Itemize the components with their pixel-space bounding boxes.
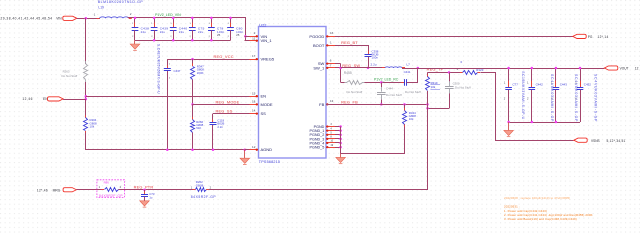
wire MRG to R86 box <box>76 189 104 191</box>
capacitor C452 <box>580 68 582 87</box>
svg-text:C442: C442 <box>536 83 544 87</box>
svg-text:Do Not Stuff: Do Not Stuff <box>386 93 402 97</box>
resistor R266 <box>192 104 194 119</box>
svg-text:22u: 22u <box>179 30 185 34</box>
svg-text:C444: C444 <box>386 87 393 91</box>
svg-text:TPS568215: TPS568215 <box>259 160 280 164</box>
svg-text:22u: 22u <box>160 30 166 34</box>
junction dot C443 bottom <box>555 121 558 124</box>
capacitor C73 <box>144 190 146 195</box>
wire cap bank bottom bus <box>135 40 231 42</box>
wire EN to IC pin 15 <box>86 96 245 98</box>
wire EN to R264 <box>85 99 87 118</box>
svg-text:2.2u: 2.2u <box>371 63 377 67</box>
junction dot C300 top <box>448 71 451 74</box>
ground at AGND <box>244 150 246 159</box>
wire PGND bus <box>340 127 342 154</box>
wire R262 to FB riser <box>209 105 428 190</box>
pin 10 PGND_4 <box>326 142 341 144</box>
junction dot C440 bottom <box>172 39 175 42</box>
svg-text:29,38,40,41,42,44,45,48,54: 29,38,40,41,42,44,45,48,54 <box>1 17 53 21</box>
svg-text:200K: 200K <box>197 71 204 75</box>
wire SW to L7 <box>341 67 385 69</box>
capacitor C80 <box>230 18 232 27</box>
svg-text:SC4VUK03VAMI-S-GP: SC4VUK03VAMI-S-GP <box>594 74 598 122</box>
wire R264 to AGND rail <box>85 131 87 136</box>
capacitor C443 <box>555 68 557 87</box>
svg-text:12: 12 <box>252 145 256 149</box>
junction dot C444 bottom <box>380 103 383 106</box>
resistor R344 <box>404 104 406 110</box>
junction dot PGND_2 <box>339 134 342 137</box>
svg-text:12*,46: 12*,46 <box>37 188 48 192</box>
svg-text:22u: 22u <box>141 30 147 34</box>
wire VOUT rail <box>402 68 604 70</box>
svg-text:REG_MODE: REG_MODE <box>216 99 240 104</box>
svg-text:PG: PG <box>588 35 593 39</box>
junction dot C338/SW <box>367 67 370 70</box>
svg-text:15: 15 <box>252 91 256 95</box>
junction dot AGND <box>244 148 247 151</box>
junction dot PGND_1 <box>339 129 342 132</box>
junction dot C75 top <box>191 17 194 20</box>
wire output cap bus <box>509 122 580 124</box>
svg-text:REG_FB: REG_FB <box>341 99 358 104</box>
svg-text:EN: EN <box>261 94 267 99</box>
svg-text:VOUT: VOUT <box>620 67 629 71</box>
svg-text:C443: C443 <box>560 83 568 87</box>
junction dot R266 bottom <box>191 148 194 151</box>
resistor R263 (Do Not Stuff) <box>85 61 87 64</box>
ground at VIN cap bank <box>134 40 136 44</box>
resistor R455 (Do Not Stuff, grayed) <box>341 82 345 84</box>
svg-text:R86: R86 <box>104 181 110 185</box>
svg-text:VIN_1: VIN_1 <box>261 38 273 43</box>
svg-text:100n: 100n <box>372 56 379 60</box>
junction dot C440 top <box>172 17 175 20</box>
svg-text:REG_SS: REG_SS <box>216 109 233 114</box>
svg-text:GB08: GB08 <box>196 183 204 187</box>
pin 2 VIN <box>245 36 259 38</box>
svg-text:18: 18 <box>252 99 256 103</box>
svg-text:22u: 22u <box>198 30 204 34</box>
svg-text:12*,14: 12*,14 <box>598 35 609 39</box>
connector flag MRG <box>63 188 76 192</box>
svg-text:R455: R455 <box>344 71 352 75</box>
junction dot SW pin7 <box>339 67 342 70</box>
capacitor C119 <box>212 114 214 123</box>
svg-text:MODE: MODE <box>261 102 273 107</box>
capacitor C77 <box>508 68 510 87</box>
pin 13 FB <box>326 104 341 106</box>
svg-text:REG_BT: REG_BT <box>341 40 358 45</box>
junction dot R347 top <box>191 58 194 61</box>
wire PGOOD to PG flag <box>341 36 573 38</box>
junction dot PGND_4 <box>339 142 342 145</box>
resistor R262 <box>193 189 195 191</box>
svg-text:PGND_5: PGND_5 <box>310 146 325 150</box>
junction dot PGND_5 <box>339 146 342 149</box>
svg-text:20220608 : replace 100uF(1210): 20220608 : replace 100uF(1210) to 47uF(0… <box>504 196 570 200</box>
svg-text:SS: SS <box>261 111 267 116</box>
ground at C73 <box>140 201 150 207</box>
capacitor C438 <box>134 18 136 27</box>
svg-text:P1V2_LED_VIN: P1V2_LED_VIN <box>155 13 181 17</box>
wire VIN to R263 <box>85 18 87 64</box>
svg-text:84X5R2F-GP: 84X5R2F-GP <box>191 195 217 199</box>
svg-text:10k: 10k <box>409 117 414 121</box>
capacitor C441 <box>401 82 404 84</box>
pin 7 SW_1 <box>326 67 341 69</box>
ground at PGND <box>340 154 342 158</box>
inductor L19 (ferrite bead) <box>97 18 100 20</box>
junction dot C80 top <box>229 17 232 20</box>
svg-text:16: 16 <box>330 31 334 35</box>
pin 11 VIN_1 <box>245 40 259 42</box>
svg-text:11: 11 <box>252 37 255 41</box>
svg-text:SC1BUK03VAMI-S-GP-U: SC1BUK03VAMI-S-GP-U <box>521 71 525 119</box>
junction dot C437 bottom <box>166 148 169 151</box>
svg-text:VSNS: VSNS <box>591 139 600 143</box>
resistor R319 <box>427 72 429 77</box>
svg-text:Do Not Stuff: Do Not Stuff <box>62 74 78 78</box>
wire R123 to VSNS <box>481 73 574 141</box>
capacitor C338 <box>368 51 370 54</box>
svg-text:VREG5: VREG5 <box>261 57 275 62</box>
wire SW bus <box>340 64 342 83</box>
pin 19 PGND_5 <box>326 147 341 149</box>
junction dot C78 top <box>210 17 213 20</box>
svg-text:L19: L19 <box>98 6 104 10</box>
svg-text:R263: R263 <box>63 70 70 74</box>
resistor R264 <box>85 115 87 118</box>
junction dot output gnd <box>507 121 510 124</box>
junction dot C452 top <box>579 67 582 70</box>
wire VIN flag to L19 <box>77 18 100 20</box>
wire REG_SS <box>213 113 245 115</box>
wire C300 bottom to FB riser <box>428 108 450 110</box>
junction dot R347/R266 on MODE net <box>191 103 194 106</box>
wire REG_MODE <box>193 104 245 106</box>
svg-text:25: 25 <box>236 33 240 37</box>
svg-text:Do Not Stuff: Do Not Stuff <box>347 90 363 94</box>
svg-text:S.C4E7UK05VZ6MX-S-GP-U: S.C4E7UK05VZ6MX-S-GP-U <box>157 44 161 94</box>
wire VIN rail to IC <box>128 18 246 41</box>
svg-text:10k: 10k <box>90 124 95 128</box>
wire R86 to R262 <box>119 189 196 191</box>
connector flag VSNS <box>574 138 587 142</box>
junction dot C443 top <box>555 67 558 70</box>
svg-text:12,46: 12,46 <box>22 97 32 101</box>
junction dot C441 top rail <box>417 67 420 70</box>
svg-text:3. Power add Bead(L19) and Cap: 3. Power add Bead(L19) and Cap(C438,C439… <box>504 217 577 221</box>
junction dot C75 bottom <box>191 39 194 42</box>
svg-text:51K: 51K <box>196 126 201 130</box>
svg-text:BOOT: BOOT <box>313 43 325 48</box>
junction dot riser 108 <box>426 107 429 110</box>
pin 5 PGND_2 <box>326 134 341 136</box>
pin 15 EN <box>245 96 259 98</box>
svg-text:12: 12 <box>635 67 639 71</box>
resistor R123 <box>460 72 463 74</box>
junction dot C439 top <box>153 17 156 20</box>
svg-text:MRG: MRG <box>53 188 61 192</box>
pin 8 PGND_3 <box>326 138 341 140</box>
svg-text:C452: C452 <box>584 83 592 87</box>
svg-text:REG_PTR: REG_PTR <box>134 185 154 190</box>
svg-text:REG_TP: REG_TP <box>427 67 444 72</box>
wire R263 to EN net <box>85 82 87 99</box>
connector flag EN <box>48 97 64 101</box>
capacitor C442 <box>531 68 533 87</box>
pin 12 AGND <box>245 149 259 151</box>
pin 1 BOOT <box>326 45 341 47</box>
svg-text:10k: 10k <box>431 85 436 89</box>
svg-text:C441: C441 <box>404 70 411 74</box>
wire REG_FB <box>326 104 428 106</box>
pin 18 MODE <box>245 104 259 106</box>
svg-text:PGOOD: PGOOD <box>309 34 324 39</box>
junction dot C442 top <box>531 67 534 70</box>
capacitor C300 (Do Not Stuff, grayed) <box>449 72 451 81</box>
capacitor C439 <box>154 18 156 27</box>
pin 17 VREG5 <box>245 59 259 61</box>
connector flag VIN <box>63 16 77 20</box>
svg-text:REG_VCC: REG_VCC <box>214 54 234 59</box>
svg-text:AGND: AGND <box>261 147 273 152</box>
pin 4 PGND_1 <box>326 130 341 132</box>
capacitor C437 <box>167 59 169 68</box>
svg-text:Do Not Stuff: Do Not Stuff <box>405 90 421 94</box>
svg-text:1u: 1u <box>149 195 153 199</box>
junction dot REG_PTR riser <box>426 103 429 106</box>
junction dot EN wire upper <box>85 95 88 98</box>
junction dot C444 top <box>380 81 383 84</box>
junction dot VIN pin2 <box>244 35 247 38</box>
wire REG_VCC <box>167 59 245 61</box>
op-amp U22 IC body TPS568215 <box>259 27 327 159</box>
svg-text:C77: C77 <box>512 83 518 87</box>
wire REG_TP <box>428 72 463 74</box>
svg-text:13: 13 <box>330 99 334 103</box>
svg-text:U22: U22 <box>259 23 266 28</box>
wire PGND to R344 bottom <box>341 125 405 154</box>
inductor L7 <box>382 67 385 69</box>
svg-text:25: 25 <box>217 33 221 37</box>
svg-text:17: 17 <box>252 54 256 58</box>
resistor R86 in dashed box (Do Not Stuff) <box>97 180 125 198</box>
capacitor C440 <box>173 18 175 27</box>
wire REG_BT <box>341 46 369 55</box>
pin 6 SW <box>326 63 341 65</box>
svg-text:14: 14 <box>252 109 256 113</box>
svg-text:L7: L7 <box>406 63 410 67</box>
connector flag PG <box>573 34 586 38</box>
svg-text:SW_1: SW_1 <box>313 65 325 70</box>
svg-text:2.2n: 2.2n <box>217 125 223 129</box>
capacitor C75 <box>192 18 194 27</box>
capacitor C444 (Do Not Stuff, grayed) <box>381 82 383 87</box>
wire EN flag to chain <box>63 99 86 101</box>
junction dot C73 <box>143 189 146 192</box>
junction dot C77 top <box>507 67 510 70</box>
svg-text:P1V2_LED_RC: P1V2_LED_RC <box>374 77 399 81</box>
svg-text:C437: C437 <box>174 69 181 73</box>
svg-text:Do Not Stuff: Do Not Stuff <box>455 86 471 90</box>
svg-text:VIN: VIN <box>56 17 62 21</box>
pin 3 PGND <box>326 126 341 128</box>
junction dot R344 top <box>403 103 406 106</box>
svg-text:BLM18K0260TN1D-GP: BLM18K0260TN1D-GP <box>98 0 144 4</box>
junction dot VIN/R263 <box>85 17 88 20</box>
connector flag VOUT <box>604 66 617 70</box>
pin 14 SS <box>245 113 259 115</box>
svg-text:5,12*,34,51: 5,12*,34,51 <box>607 139 626 143</box>
junction dot PGND_3 <box>339 138 342 141</box>
junction dot C439 bottom <box>153 39 156 42</box>
junction dot C78 bottom <box>210 39 213 42</box>
capacitor C78 <box>211 18 213 27</box>
junction dot C438 top <box>134 17 137 20</box>
resistor R347 <box>192 59 194 66</box>
svg-text:84X5R2F-GP: 84X5R2F-GP <box>99 194 123 198</box>
junction dot C442 bottom <box>531 121 534 124</box>
junction dot PGND <box>339 125 342 128</box>
ground at output caps <box>508 122 510 130</box>
svg-text:FB: FB <box>319 102 324 107</box>
junction dot EN wire lower <box>85 98 88 101</box>
junction dot C119 bottom <box>212 148 215 151</box>
pin 16 PGOOD <box>326 36 341 38</box>
